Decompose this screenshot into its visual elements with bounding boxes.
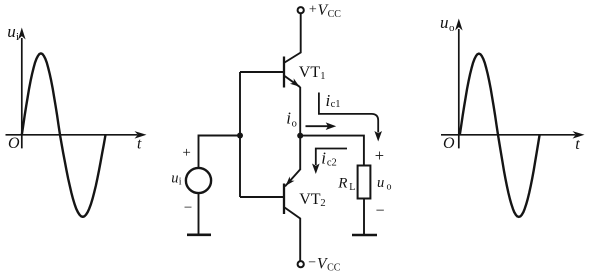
svg-text:VT: VT (299, 64, 321, 81)
wire: input node vertical (bases of VT1/VT2) (239, 72, 241, 197)
left graph x-axis (6, 131, 147, 139)
svg-text:−: − (184, 200, 192, 216)
wire: VT2 base (240, 196, 283, 198)
svg-text:CC: CC (327, 262, 341, 273)
transistor VT1 base bar (283, 57, 285, 88)
resistor RL (358, 166, 371, 199)
svg-text:L: L (349, 182, 355, 193)
svg-text:o: o (292, 118, 297, 129)
source u_i (signal source circle) (186, 168, 211, 193)
svg-text:1: 1 (320, 71, 325, 82)
svg-text:R: R (337, 175, 347, 191)
i_o current arrow (306, 122, 337, 130)
svg-text:VT: VT (299, 191, 321, 208)
svg-text:i: i (16, 31, 19, 43)
svg-text:t: t (575, 136, 580, 153)
svg-text:i: i (286, 109, 291, 128)
transistor VT1 emitter with arrow (285, 76, 301, 87)
wire: RL bottom to ground (363, 199, 365, 235)
svg-text:i: i (321, 149, 326, 168)
transistor VT2 base bar (283, 184, 285, 215)
svg-text:O: O (8, 135, 20, 152)
wire: VT2 collector down to -Vcc (285, 208, 301, 262)
ground (right, under RL) (352, 234, 377, 237)
transistor VT2 emitter with arrow (from output node) (285, 136, 300, 187)
i_c2 current annotation arrow (312, 149, 347, 175)
wire: output node to RL (300, 136, 364, 166)
node: input junction dot (237, 133, 243, 139)
svg-text:c2: c2 (327, 157, 337, 168)
+Vcc supply terminal (298, 7, 304, 13)
left graph y-axis (18, 28, 26, 149)
wire: source bottom to ground (198, 193, 200, 234)
svg-text:+: + (182, 145, 190, 161)
svg-text:2: 2 (320, 198, 325, 209)
svg-text:t: t (137, 136, 142, 153)
svg-text:+: + (309, 3, 317, 18)
svg-text:u: u (440, 13, 449, 32)
wire: +Vcc to VT1 collector (285, 13, 301, 62)
u_i input sine waveform (22, 53, 106, 216)
i_c1 current annotation arrow (319, 93, 382, 142)
svg-text:−: − (308, 256, 316, 271)
right graph y-axis (455, 19, 463, 149)
svg-text:i: i (179, 177, 182, 188)
svg-text:u: u (171, 170, 178, 186)
u_o output sine waveform (460, 54, 540, 217)
svg-text:u: u (7, 22, 16, 41)
-Vcc supply terminal (298, 261, 304, 267)
wire: VT1 base (240, 71, 283, 73)
svg-text:O: O (443, 135, 455, 152)
ground (left, under source) (187, 234, 211, 237)
right graph x-axis (441, 131, 585, 139)
svg-text:o: o (387, 182, 392, 193)
svg-text:u: u (377, 175, 384, 191)
svg-text:+: + (375, 146, 384, 165)
node: output junction dot (297, 133, 303, 139)
svg-text:CC: CC (328, 9, 342, 20)
svg-text:o: o (449, 22, 455, 34)
wire: node to source top (199, 136, 241, 169)
wire: VT1 emitter down to output node (299, 87, 301, 136)
svg-text:−: − (376, 202, 385, 219)
svg-text:c1: c1 (331, 99, 341, 110)
